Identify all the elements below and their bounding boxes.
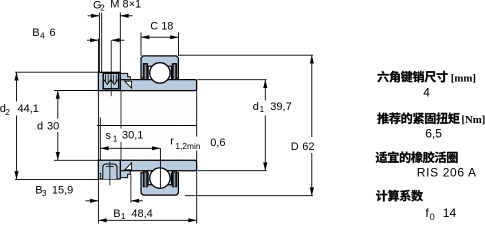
svg-text:3: 3 xyxy=(42,188,47,198)
svg-text:30,1: 30,1 xyxy=(122,130,143,142)
svg-text:0,6: 0,6 xyxy=(210,137,225,149)
svg-text:48,4: 48,4 xyxy=(131,208,152,220)
svg-text:1: 1 xyxy=(121,211,126,221)
svg-text:D: D xyxy=(291,141,299,153)
svg-text:6,5: 6,5 xyxy=(425,126,442,140)
svg-text:14: 14 xyxy=(443,206,457,220)
svg-text:[Nm]: [Nm] xyxy=(461,114,485,126)
svg-text:B: B xyxy=(113,208,120,220)
svg-text:2: 2 xyxy=(5,107,10,117)
svg-text:M 8×1: M 8×1 xyxy=(110,0,141,11)
svg-text:39,7: 39,7 xyxy=(270,101,291,113)
svg-text:[mm]: [mm] xyxy=(451,72,476,84)
svg-text:62: 62 xyxy=(302,141,314,153)
svg-text:4: 4 xyxy=(40,31,45,41)
svg-text:d: d xyxy=(37,121,43,133)
svg-text:15,9: 15,9 xyxy=(52,185,73,197)
svg-text:30: 30 xyxy=(47,121,59,133)
svg-text:RIS 206 A: RIS 206 A xyxy=(417,166,477,180)
svg-text:s: s xyxy=(106,130,112,142)
svg-text:44,1: 44,1 xyxy=(18,103,39,115)
svg-text:B: B xyxy=(32,27,39,39)
svg-text:1,2min: 1,2min xyxy=(175,141,200,151)
svg-text:1: 1 xyxy=(113,134,118,144)
svg-text:1: 1 xyxy=(260,104,265,114)
svg-text:6: 6 xyxy=(50,27,56,39)
svg-text:r: r xyxy=(170,136,174,148)
svg-text:0: 0 xyxy=(430,212,435,222)
svg-text:4: 4 xyxy=(423,85,430,99)
svg-text:C 18: C 18 xyxy=(150,21,173,33)
svg-text:2: 2 xyxy=(100,3,105,13)
svg-text:d: d xyxy=(253,101,259,113)
